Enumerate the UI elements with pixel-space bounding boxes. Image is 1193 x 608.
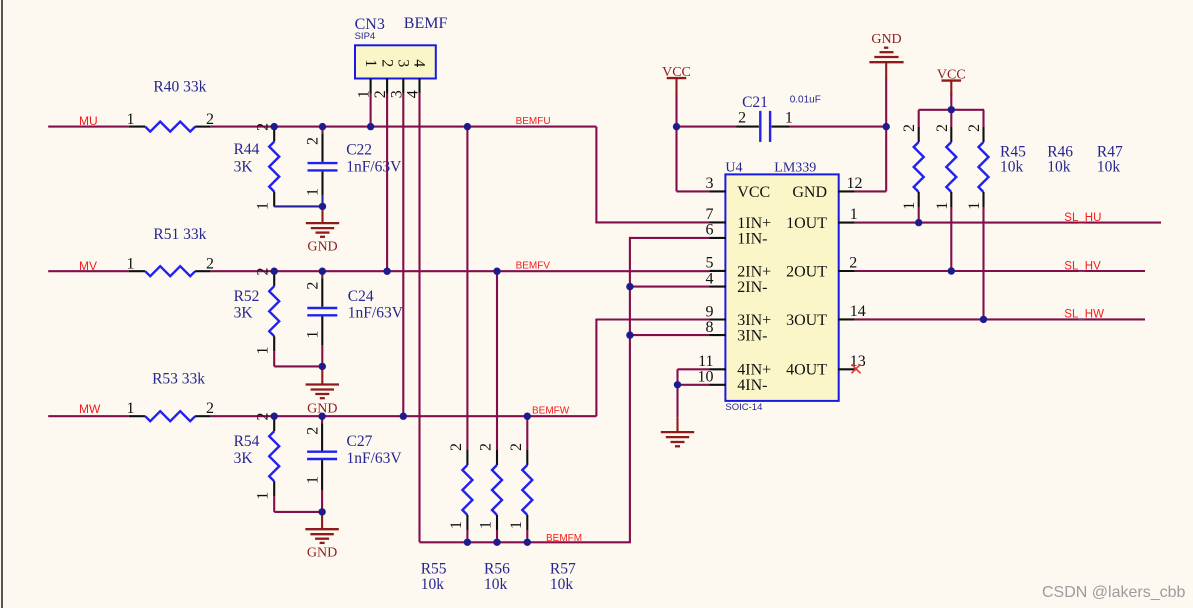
svg-text:3IN+: 3IN+ (737, 312, 771, 329)
svg-text:1: 1 (508, 521, 525, 529)
svg-text:C24: C24 (348, 288, 374, 305)
svg-text:9: 9 (706, 303, 714, 320)
svg-text:2: 2 (966, 124, 983, 132)
svg-text:14: 14 (850, 303, 866, 320)
svg-text:5: 5 (706, 255, 714, 272)
svg-text:6: 6 (706, 222, 714, 239)
svg-text:10k: 10k (1047, 158, 1071, 175)
svg-text:3IN-: 3IN- (737, 328, 767, 345)
svg-text:SOIC-14: SOIC-14 (725, 402, 762, 413)
svg-text:1nF/63V: 1nF/63V (346, 159, 402, 176)
svg-text:10k: 10k (1097, 158, 1121, 175)
svg-text:10k: 10k (550, 576, 574, 593)
svg-text:2: 2 (305, 427, 322, 435)
svg-text:BEMFU: BEMFU (516, 116, 551, 127)
svg-text:1: 1 (305, 188, 322, 196)
svg-text:SIP4: SIP4 (355, 31, 376, 42)
svg-text:BEMFW: BEMFW (532, 406, 570, 417)
svg-text:1: 1 (305, 331, 322, 339)
svg-text:SL_HV: SL_HV (1064, 260, 1101, 272)
svg-text:2: 2 (255, 268, 272, 276)
svg-text:2: 2 (508, 443, 525, 451)
svg-text:VCC: VCC (737, 184, 770, 201)
svg-text:BEMFV: BEMFV (516, 260, 551, 271)
svg-text:GND: GND (792, 184, 827, 201)
svg-text:11: 11 (698, 353, 713, 370)
svg-text:1: 1 (901, 202, 918, 210)
svg-text:2: 2 (934, 124, 951, 132)
svg-text:2: 2 (305, 282, 322, 290)
svg-text:1OUT: 1OUT (786, 215, 827, 232)
svg-text:BEMFM: BEMFM (546, 533, 582, 544)
svg-text:4: 4 (706, 270, 714, 287)
svg-text:1nF/63V: 1nF/63V (347, 450, 403, 467)
svg-text:1: 1 (362, 59, 379, 67)
svg-text:10k: 10k (421, 576, 445, 593)
svg-text:R52: R52 (234, 288, 260, 305)
svg-text:3: 3 (706, 175, 714, 192)
svg-text:2: 2 (206, 256, 214, 273)
svg-text:2: 2 (901, 124, 918, 132)
svg-text:2: 2 (206, 400, 214, 417)
svg-text:1: 1 (448, 521, 465, 529)
svg-text:2: 2 (206, 111, 214, 128)
svg-text:BEMF: BEMF (404, 15, 448, 32)
svg-text:LM339: LM339 (774, 160, 816, 175)
svg-text:R51 33k: R51 33k (153, 226, 206, 243)
svg-text:3K: 3K (234, 159, 254, 176)
svg-text:1: 1 (785, 109, 793, 126)
svg-text:1: 1 (127, 400, 135, 417)
svg-text:4OUT: 4OUT (786, 362, 827, 379)
svg-text:R53 33k: R53 33k (152, 371, 205, 388)
svg-text:GND: GND (307, 240, 337, 255)
svg-text:MV: MV (79, 259, 97, 273)
svg-text:VCC: VCC (662, 65, 691, 80)
svg-text:4: 4 (411, 59, 428, 67)
svg-text:R40 33k: R40 33k (153, 78, 206, 95)
svg-text:2OUT: 2OUT (786, 263, 827, 280)
svg-text:1: 1 (305, 476, 322, 484)
svg-text:2: 2 (448, 443, 465, 451)
svg-text:2: 2 (372, 90, 389, 98)
svg-text:1: 1 (255, 202, 272, 210)
svg-text:12: 12 (847, 175, 863, 192)
svg-text:MU: MU (79, 114, 98, 128)
svg-text:3: 3 (395, 59, 412, 67)
svg-text:2IN+: 2IN+ (737, 263, 771, 280)
svg-text:3OUT: 3OUT (786, 312, 827, 329)
svg-text:2: 2 (255, 123, 272, 131)
svg-text:1: 1 (255, 492, 272, 500)
svg-text:1IN+: 1IN+ (737, 215, 771, 232)
svg-text:0.01uF: 0.01uF (790, 95, 821, 106)
svg-text:10k: 10k (484, 576, 508, 593)
svg-text:3K: 3K (234, 450, 254, 467)
svg-text:2IN-: 2IN- (737, 279, 767, 296)
svg-text:8: 8 (706, 319, 714, 336)
svg-text:1: 1 (127, 111, 135, 128)
svg-text:3K: 3K (234, 305, 254, 322)
svg-text:VCC: VCC (937, 67, 966, 82)
svg-text:1: 1 (478, 521, 495, 529)
svg-text:10k: 10k (1000, 158, 1024, 175)
svg-text:7: 7 (706, 206, 714, 223)
svg-text:SL_HW: SL_HW (1064, 309, 1104, 321)
svg-text:MW: MW (79, 402, 101, 416)
svg-text:2: 2 (849, 255, 857, 272)
svg-text:SL_HU: SL_HU (1064, 212, 1101, 224)
svg-text:1: 1 (850, 206, 858, 223)
svg-text:1: 1 (356, 90, 373, 98)
svg-text:10: 10 (698, 369, 714, 386)
svg-text:4IN+: 4IN+ (737, 362, 771, 379)
svg-text:4: 4 (405, 90, 422, 98)
svg-text:2: 2 (255, 413, 272, 421)
svg-text:2: 2 (378, 59, 395, 67)
svg-text:1: 1 (966, 202, 983, 210)
svg-text:R54: R54 (234, 433, 260, 450)
svg-text:GND: GND (307, 546, 337, 561)
svg-text:1: 1 (934, 202, 951, 210)
svg-text:1IN-: 1IN- (737, 230, 767, 247)
svg-text:GND: GND (871, 32, 901, 47)
svg-text:CSDN @lakers_cbb: CSDN @lakers_cbb (1042, 584, 1186, 601)
svg-text:3: 3 (388, 90, 405, 98)
svg-text:C27: C27 (347, 433, 373, 450)
svg-text:R44: R44 (234, 141, 260, 158)
svg-text:U4: U4 (725, 160, 742, 175)
svg-text:2: 2 (738, 109, 746, 126)
svg-text:1: 1 (127, 256, 135, 273)
svg-text:2: 2 (478, 443, 495, 451)
svg-text:1: 1 (255, 347, 272, 355)
svg-text:1nF/63V: 1nF/63V (348, 305, 404, 322)
svg-text:2: 2 (305, 137, 322, 145)
svg-text:C22: C22 (346, 141, 372, 158)
svg-text:4IN-: 4IN- (737, 377, 767, 394)
